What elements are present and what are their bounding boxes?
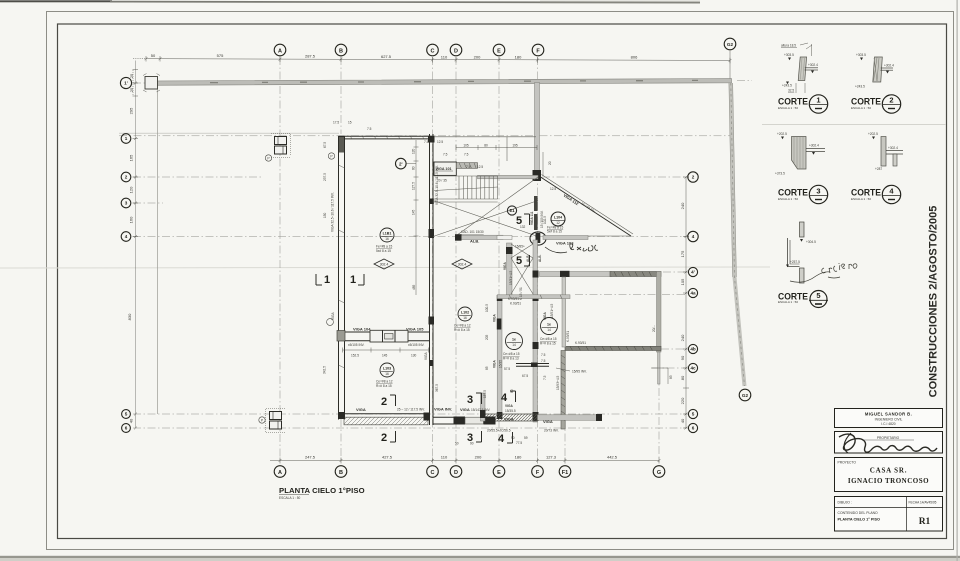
- svg-text:B: B: [339, 470, 343, 476]
- svg-text:Ce=#8 a 12: Ce=#8 a 12: [376, 380, 393, 384]
- svg-text:x5/105 INV.: x5/105 INV.: [408, 343, 425, 347]
- bottom dimension chain: [270, 458, 661, 464]
- K beam row: [497, 295, 570, 299]
- horizontal grid line 4': [663, 271, 686, 273]
- svg-text:5: 5: [125, 412, 128, 417]
- top dimension labels: [151, 53, 638, 60]
- svg-text:1: 1: [816, 96, 820, 105]
- grid bubble D top: [450, 44, 462, 56]
- grid bubble G bottom: [653, 466, 665, 478]
- horizontal grid line 5: [133, 413, 686, 415]
- svg-text:C: C: [431, 470, 435, 476]
- svg-text:67.5: 67.5: [522, 374, 528, 378]
- svg-text:+243.5: +243.5: [782, 84, 792, 88]
- wall F vertical lower: [533, 240, 538, 422]
- wall G wing right vertical: [657, 272, 662, 353]
- horizontal grid line 1: [119, 135, 733, 137]
- stair landing beam: [478, 175, 539, 178]
- svg-text:2: 2: [692, 175, 695, 180]
- grid bubble A bottom: [274, 466, 286, 478]
- svg-text:D: D: [454, 470, 458, 476]
- svg-text:K 15 / 51: K 15 / 51: [519, 287, 523, 300]
- grid bubble G2 top: [724, 38, 736, 81]
- vertical grid line F1: [564, 390, 566, 462]
- svg-text:90: 90: [511, 436, 515, 440]
- svg-text:6: 6: [125, 426, 128, 431]
- svg-text:442.5: 442.5: [607, 455, 618, 460]
- diamond 302.4 right: [452, 259, 472, 269]
- svg-text:L102: L102: [461, 310, 469, 314]
- mark E1 circle: [507, 206, 516, 215]
- svg-text:4: 4: [692, 234, 695, 239]
- svg-text:16: 16: [463, 316, 467, 320]
- svg-text:132: 132: [520, 225, 526, 229]
- svg-text:157.5: 157.5: [483, 390, 487, 398]
- grid bubble 4b right: [688, 344, 697, 353]
- grid bubble 5 left: [122, 410, 131, 419]
- svg-text:F1: F1: [562, 470, 568, 476]
- svg-text:57.5: 57.5: [504, 367, 510, 371]
- svg-text:PROPIETARIO: PROPIETARIO: [877, 436, 900, 440]
- svg-text:4b: 4b: [690, 347, 696, 352]
- svg-text:1e: 1e: [512, 337, 516, 341]
- section cut mark 4 bottom: [498, 432, 513, 445]
- svg-text:G2: G2: [742, 393, 749, 398]
- svg-text:E: E: [497, 470, 501, 476]
- svg-text:1e: 1e: [547, 322, 551, 326]
- svg-text:1: 1: [350, 274, 356, 286]
- svg-text:150: 150: [323, 212, 327, 218]
- grid bubble F1 bottom: [559, 466, 571, 478]
- wall row 4b: [565, 346, 661, 350]
- diagonal existing wall to G2: [737, 80, 752, 82]
- horizontal grid line 4c: [652, 367, 686, 369]
- svg-text:1: 1: [324, 274, 330, 286]
- horizontal grid line 6: [133, 427, 686, 429]
- circled column F4: [530, 232, 546, 245]
- slab mark 14 left: [503, 333, 523, 361]
- svg-text:5: 5: [816, 291, 820, 300]
- section cut mark 5 upper: [516, 214, 530, 227]
- bottom beam light to F1: [538, 415, 600, 421]
- svg-text:40: 40: [129, 418, 134, 423]
- svg-text:80: 80: [510, 389, 514, 393]
- svg-text:100.5: 100.5: [485, 304, 489, 312]
- svg-text:127.3: 127.3: [546, 455, 557, 460]
- svg-text:1: 1: [125, 136, 128, 141]
- svg-text:67.5: 67.5: [323, 142, 327, 148]
- svg-text:VIGA: VIGA: [460, 407, 470, 412]
- CORTE 4 detail: [868, 132, 903, 171]
- svg-text:180: 180: [515, 455, 522, 460]
- svg-text:627.5: 627.5: [381, 54, 392, 59]
- CORTE 2 detail: [855, 53, 894, 89]
- svg-text:16: 16: [385, 372, 389, 376]
- wall C-D row 5 segment: [433, 416, 454, 418]
- svg-text:120: 120: [412, 148, 416, 154]
- svg-text:VIGA: VIGA: [504, 417, 514, 422]
- svg-text:+304.5: +304.5: [806, 240, 816, 244]
- svg-text:240: 240: [680, 334, 685, 341]
- horizontal grid line 2 left: [133, 176, 262, 178]
- bottom dimension labels: [305, 455, 618, 460]
- svg-text:ESCALA 1 : 50: ESCALA 1 : 50: [778, 300, 798, 304]
- slab mark 14 right: [540, 318, 558, 346]
- svg-text:+302.4: +302.4: [888, 146, 898, 150]
- room1 top wall B-C: [339, 135, 435, 137]
- horizontal grid line 1': [133, 82, 300, 84]
- grid bubble 4c right: [688, 363, 697, 372]
- svg-text:PLANTA CIELO 1°PISO: PLANTA CIELO 1°PISO: [279, 486, 365, 495]
- svg-text:20/...: 20/...: [652, 325, 656, 332]
- svg-text:4: 4: [498, 433, 505, 445]
- grid bubble 5 right: [688, 409, 697, 418]
- VIGA 101 beam: [434, 162, 456, 175]
- wall B vertical: [339, 137, 344, 153]
- svg-text:80: 80: [412, 166, 416, 170]
- grid bubble B top: [335, 44, 347, 56]
- CORTE 1 detail: [781, 43, 818, 93]
- svg-text:+302.4: +302.4: [809, 144, 819, 148]
- horizontal grid line 2 right: [542, 176, 686, 178]
- CORTE 3 title: [778, 185, 828, 203]
- svg-text:VIGA: VIGA: [505, 404, 513, 408]
- section cut mark 1 left: [316, 274, 330, 286]
- svg-text:G2: G2: [727, 42, 734, 47]
- vertical grid line C: [432, 57, 434, 462]
- vertical grid line G: [658, 272, 660, 462]
- svg-text:CAD. 101 15/30: CAD. 101 15/30: [461, 230, 484, 234]
- CORTE 1 title: [778, 95, 828, 113]
- svg-text:152.5: 152.5: [351, 354, 359, 358]
- thin wall line C to F at top: [434, 136, 536, 138]
- svg-text:12.5: 12.5: [477, 165, 483, 169]
- svg-text:15/31+4.5: 15/31+4.5: [509, 271, 513, 285]
- svg-text:Ce=#8 a 15: Ce=#8 a 15: [540, 337, 557, 341]
- svg-text:20/73 INV.: 20/73 INV.: [544, 429, 559, 433]
- svg-text:VIGA: VIGA: [543, 419, 553, 424]
- svg-text:Fe=#8 a 15: Fe=#8 a 15: [376, 245, 392, 249]
- svg-text:83: 83: [669, 375, 673, 379]
- paper fold line left: [0, 267, 770, 268]
- stair cross brace X: [433, 177, 538, 237]
- section cut mark 5 lower: [516, 255, 530, 267]
- svg-text:2: 2: [381, 396, 387, 408]
- VIGA 103 beam: [543, 236, 588, 240]
- grid bubble 6 right: [688, 423, 697, 432]
- svg-text:altura 18.5: altura 18.5: [781, 44, 796, 48]
- section cut mark 2 bottom: [381, 431, 396, 444]
- svg-text:20/55.5+JC/56.5: 20/55.5+JC/56.5: [487, 429, 511, 433]
- svg-text:+302.4: +302.4: [808, 63, 818, 67]
- grid bubble 4' right: [688, 267, 697, 276]
- svg-text:15/147.5 INV.: 15/147.5 INV.: [471, 408, 490, 412]
- svg-text:+202.5: +202.5: [777, 132, 787, 136]
- short line at 4c: [651, 367, 668, 369]
- diagonal beam VIGA 112: [539, 176, 631, 236]
- svg-text:80: 80: [484, 144, 488, 148]
- svg-text:4: 4: [125, 234, 128, 239]
- grid bubble D bottom: [450, 466, 462, 478]
- svg-text:VIGA 32.5–10.6 / 117.5 INV.: VIGA 32.5–10.6 / 117.5 INV.: [331, 192, 335, 232]
- svg-text:+243.5: +243.5: [855, 85, 865, 89]
- paper fold line right: [762, 124, 946, 126]
- scan artifact: bottom gray band: [0, 556, 960, 558]
- svg-text:110: 110: [441, 455, 448, 460]
- horizontal grid line 4a: [575, 294, 686, 296]
- grid bubble F top: [532, 44, 544, 56]
- svg-text:180: 180: [515, 55, 522, 60]
- H column detail bottom left: [270, 412, 282, 430]
- beam dark marks: [210, 81, 474, 82]
- svg-text:20: 20: [548, 161, 552, 165]
- section cut mark 3 bottom: [467, 431, 482, 444]
- svg-text:ALB.: ALB.: [538, 254, 542, 262]
- handwritten note 3C UVC: [545, 244, 598, 253]
- horizontal grid line 3: [133, 202, 163, 204]
- svg-text:DIBUJO :: DIBUJO :: [838, 501, 852, 505]
- svg-text:R=# 8 a 15: R=# 8 a 15: [376, 384, 392, 388]
- left boundary line: [157, 89, 159, 414]
- handwritten note existe y no va: [790, 263, 857, 282]
- right dimension labels (rotated): [680, 202, 685, 423]
- svg-text:Ce=#8 a 15: Ce=#8 a 15: [503, 352, 520, 356]
- svg-text:105: 105: [463, 144, 469, 148]
- svg-text:L1B1: L1B1: [383, 231, 392, 235]
- svg-text:VIGA 32.5–10.6 / 117.5 INV.: VIGA 32.5–10.6 / 117.5 INV.: [435, 165, 439, 205]
- svg-text:VIGA INV.: VIGA INV.: [434, 407, 452, 412]
- inner dim chain stair right x543: [542, 152, 544, 176]
- vertical grid line A: [279, 57, 281, 462]
- svg-text:VIGA: VIGA: [424, 352, 428, 360]
- svg-text:VIGA: VIGA: [356, 407, 366, 412]
- svg-text:VIGA: VIGA: [493, 314, 497, 322]
- slab mark L1B1: [376, 228, 394, 253]
- project box: [835, 458, 943, 492]
- svg-text:12.5: 12.5: [437, 140, 443, 144]
- svg-text:R=# 8 a 15: R=# 8 a 15: [454, 328, 470, 332]
- svg-text:7.5: 7.5: [541, 353, 546, 357]
- grid bubble 2 right: [688, 172, 698, 182]
- svg-text:7.5: 7.5: [464, 153, 469, 157]
- left stub wall near E bottom: [481, 393, 486, 421]
- svg-text:302.4: 302.4: [380, 263, 389, 267]
- svg-text:200: 200: [475, 455, 482, 460]
- grid bubble 4a right: [688, 288, 697, 297]
- wall W1 vertical (E line room divider): [507, 243, 513, 295]
- svg-text:7.5: 7.5: [466, 165, 471, 169]
- svg-text:15: 15: [348, 121, 352, 125]
- svg-text:7.5: 7.5: [541, 359, 546, 363]
- svg-text:7.5: 7.5: [443, 153, 448, 157]
- svg-text:2': 2': [399, 161, 403, 166]
- svg-text:295: 295: [129, 107, 134, 114]
- CORTE 4 title: [851, 185, 901, 203]
- columns on wall C: [429, 199, 434, 205]
- svg-text:VIGA: VIGA: [543, 312, 547, 320]
- svg-text:CONSTRUCCIONES 2/AGOSTO/2005: CONSTRUCCIONES 2/AGOSTO/2005: [928, 206, 940, 398]
- grid bubble A top: [274, 44, 286, 56]
- svg-text:E1: E1: [509, 208, 515, 213]
- svg-text:INGENIERO CIVIL: INGENIERO CIVIL: [875, 418, 903, 422]
- grid bubble 2 left: [121, 172, 131, 182]
- svg-text:+202.5: +202.5: [868, 132, 878, 136]
- svg-text:2: 2: [889, 96, 893, 105]
- wall row 4' (G wing top): [540, 272, 612, 277]
- slab mark L104: [547, 212, 565, 234]
- CORTE 3 detail: [775, 132, 825, 176]
- horizontal grid line 4b: [661, 348, 686, 350]
- column at beam start: [145, 77, 158, 90]
- svg-text:ESCALA 1 : 50: ESCALA 1 : 50: [778, 197, 798, 201]
- svg-text:+257.5: +257.5: [790, 260, 800, 264]
- svg-text:15/93+4.5: 15/93+4.5: [556, 376, 560, 390]
- vertical grid line F: [537, 57, 539, 462]
- svg-text:4a: 4a: [690, 291, 696, 296]
- grid bubble 4 right: [688, 231, 698, 241]
- grid bubble 4 left: [121, 232, 131, 242]
- grid bubble C bottom: [427, 466, 439, 478]
- svg-text:5x# 8 a 15: 5x# 8 a 15: [376, 249, 391, 253]
- svg-text:ESCALA 1 : 50: ESCALA 1 : 50: [851, 106, 871, 110]
- vertical grid line D: [455, 57, 457, 462]
- svg-text:12: 12: [556, 221, 560, 225]
- svg-text:50: 50: [455, 442, 459, 446]
- svg-text:5: 5: [516, 255, 522, 267]
- svg-text:205: 205: [485, 334, 489, 340]
- svg-text:ALB.: ALB.: [526, 254, 530, 262]
- svg-text:R=# 8 a 13: R=# 8 a 13: [503, 357, 519, 361]
- svg-text:15/51+4.5: 15/51+4.5: [550, 304, 554, 318]
- left dimension chain: [133, 61, 139, 430]
- section cut mark 4 top: [501, 391, 516, 404]
- svg-text:6: 6: [692, 426, 695, 431]
- svg-text:427.5: 427.5: [382, 455, 393, 460]
- svg-text:830: 830: [127, 313, 132, 320]
- grid bubble G2 lower right: [739, 389, 751, 401]
- svg-text:K.93/51: K.93/51: [566, 331, 570, 342]
- svg-text:VIGA: VIGA: [503, 262, 507, 270]
- section cut mark 2 top: [381, 395, 396, 408]
- svg-text:B: B: [339, 48, 343, 54]
- svg-text:3: 3: [467, 432, 473, 444]
- svg-text:7.5: 7.5: [424, 140, 429, 144]
- svg-text:110: 110: [441, 55, 448, 60]
- svg-text:40: 40: [680, 418, 685, 423]
- top boundary beam wall: [146, 79, 732, 86]
- vertical grid line E: [498, 57, 500, 462]
- svg-text:59: 59: [524, 436, 528, 440]
- svg-text:287.5: 287.5: [305, 53, 316, 58]
- svg-text:ALB.: ALB.: [470, 239, 479, 244]
- svg-text:CONTENIDO DEL PLANO: CONTENIDO DEL PLANO: [838, 511, 879, 515]
- svg-text:342.5: 342.5: [323, 366, 327, 374]
- svg-text:5x# 8 a 15: 5x# 8 a 15: [547, 230, 562, 234]
- svg-text:2: 2: [381, 432, 387, 444]
- svg-text:3: 3: [125, 201, 128, 206]
- svg-text:77.5: 77.5: [516, 441, 522, 445]
- owner box with signature: [835, 432, 943, 454]
- svg-text:575: 575: [217, 53, 224, 58]
- drawing info box: [835, 497, 943, 532]
- svg-text:240: 240: [680, 202, 685, 209]
- svg-text:PLANTA CIELO 1° PISO: PLANTA CIELO 1° PISO: [838, 518, 880, 522]
- svg-text:17.5: 17.5: [333, 121, 339, 125]
- horizontal grid line 4: [133, 236, 686, 238]
- svg-text:7.5: 7.5: [367, 127, 372, 131]
- svg-text:1': 1': [124, 81, 128, 86]
- svg-text:3: 3: [467, 394, 473, 406]
- svg-text:A: A: [278, 48, 282, 54]
- svg-text:80: 80: [680, 375, 685, 380]
- svg-text:VIGA 105: VIGA 105: [406, 327, 424, 332]
- vertical grid line B: [340, 57, 342, 134]
- circle 2' mid plan: [396, 158, 417, 169]
- CAD 101 beam: [456, 235, 503, 239]
- CORTE 5 detail: [786, 222, 816, 283]
- svg-text:ESCALA 1 : 50: ESCALA 1 : 50: [279, 496, 300, 500]
- svg-text:ESCALA 1 : 50: ESCALA 1 : 50: [778, 106, 798, 110]
- svg-text:7.5: 7.5: [543, 375, 547, 380]
- svg-text:160: 160: [129, 216, 134, 223]
- X brace between W1 and F walls: [511, 244, 533, 294]
- svg-text:145: 145: [412, 209, 416, 215]
- svg-text:5: 5: [692, 412, 695, 417]
- svg-text:FECHA 14/AV45/05: FECHA 14/AV45/05: [909, 501, 937, 505]
- circle P small near A: [265, 155, 271, 161]
- svg-text:120: 120: [129, 186, 134, 193]
- svg-text:ESCALA 1 : 50: ESCALA 1 : 50: [851, 197, 871, 201]
- svg-text:90: 90: [680, 355, 685, 360]
- svg-text:25 – 12 / 117.5 INV.: 25 – 12 / 117.5 INV.: [397, 408, 425, 412]
- svg-text:16: 16: [385, 237, 389, 241]
- slab mark L102: [454, 307, 472, 332]
- svg-text:485: 485: [412, 284, 416, 290]
- svg-text:15/85+: 15/85+: [515, 245, 525, 249]
- svg-text:K.93/51: K.93/51: [508, 297, 519, 301]
- VIGA 104/105 beam: [344, 331, 430, 333]
- section cut mark 1 right: [350, 274, 364, 286]
- svg-text:145: 145: [382, 354, 388, 358]
- svg-text:806: 806: [631, 55, 638, 60]
- small beam y364: [516, 363, 549, 365]
- svg-text:A: A: [278, 470, 282, 476]
- stairs treads: [434, 176, 498, 202]
- grid bubble E top: [493, 44, 505, 56]
- left dimension labels (rotated): [127, 73, 134, 423]
- wall C vertical: [429, 134, 431, 425]
- svg-text:14: 14: [512, 343, 516, 347]
- svg-text:MIGUEL SANDOR B.: MIGUEL SANDOR B.: [865, 412, 912, 417]
- column at F wall bottom: [533, 170, 542, 181]
- svg-text:VIGA 111: VIGA 111: [530, 211, 534, 225]
- svg-text:+302.4: +302.4: [884, 64, 894, 68]
- svg-text:+303.5: +303.5: [856, 53, 866, 57]
- grid bubble B bottom: [335, 466, 347, 478]
- svg-text:E: E: [497, 48, 501, 54]
- svg-text:15/95 INV.: 15/95 INV.: [572, 370, 587, 374]
- svg-text:I.C.I 4820: I.C.I 4820: [881, 422, 895, 426]
- svg-text:VIGA: VIGA: [331, 312, 335, 320]
- svg-text:Ce=#8 a 12: Ce=#8 a 12: [454, 324, 471, 328]
- dims under viga 104: [343, 348, 429, 353]
- svg-text:2: 2: [125, 175, 128, 180]
- engineer box: [835, 409, 943, 428]
- svg-text:4c: 4c: [690, 366, 696, 371]
- bottom beam dark (row 5): [485, 414, 537, 421]
- svg-text:L104: L104: [554, 215, 562, 219]
- svg-text:127.5: 127.5: [412, 182, 416, 190]
